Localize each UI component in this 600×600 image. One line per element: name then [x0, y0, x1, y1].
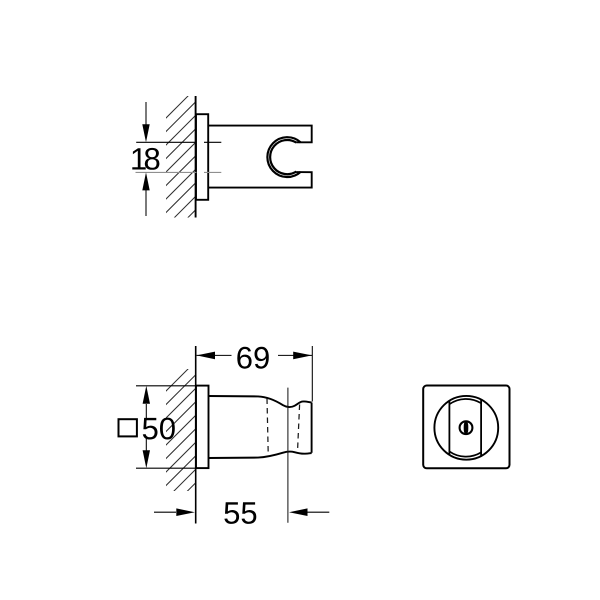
- dimension 50: square-section symbol: [119, 419, 137, 436]
- plate square with rounded corners: [423, 386, 509, 469]
- dimension 50: lower arrowhead (down): [143, 450, 150, 468]
- dimension 50: top extension line: [136, 385, 196, 387]
- dimension 18: upper arrowhead (down): [142, 124, 149, 142]
- dashed tangent edge (left): [267, 399, 268, 454]
- dimension 69: right extension line: [311, 346, 313, 402]
- dimension 50: value label: [143, 418, 175, 440]
- holder rim inner arc (bottom): [449, 451, 481, 456]
- dimension 50: bottom extension line: [136, 467, 196, 469]
- dimension 50: lower dimension line: [145, 438, 147, 451]
- screw slot: [464, 421, 469, 434]
- dimension 18: top extension line: [136, 141, 196, 143]
- wall hatching (side view): [160, 361, 196, 532]
- holder outer circle: [434, 396, 498, 460]
- wall hatching (top view): [160, 88, 196, 273]
- holder left flat chord: [448, 401, 450, 455]
- dimension 18: lower arrowhead (up): [142, 172, 149, 190]
- dimension 18: lower leader line: [145, 189, 147, 216]
- dimension 69: value label: [237, 347, 268, 369]
- C-clip inner arc: [270, 140, 296, 174]
- dashed tangent edge (right): [298, 405, 300, 450]
- dimension 50: upper arrowhead (up): [143, 386, 150, 404]
- wall line (top view): [195, 96, 197, 218]
- dimension 18: value label: [132, 148, 159, 170]
- wall plate (top section): [196, 114, 208, 200]
- holder right flat chord: [480, 400, 482, 456]
- dimension 55: left tail line: [154, 511, 176, 513]
- wall plate (side view): [196, 386, 209, 469]
- dimension 55: value label: [224, 502, 256, 524]
- dimension 69: dimension line left segment: [197, 354, 232, 356]
- dimension 18: upper leader line: [145, 102, 147, 126]
- dimension 69: dimension line right segment: [278, 354, 312, 356]
- screw head circle: [460, 421, 473, 434]
- dimension 69: left arrowhead: [197, 352, 215, 360]
- dimension 18: bottom extension line (gray): [136, 171, 197, 173]
- holder body outline (top section with C-notch): [208, 126, 312, 143]
- dimension 55: right arrowhead (points left): [289, 508, 308, 516]
- wall line + extension line (side view, also 69/55 left extension): [195, 346, 197, 524]
- dimension 69: right arrowhead: [293, 352, 312, 360]
- dimension 55: right tail line: [308, 511, 330, 513]
- dimension 50: upper dimension line: [145, 404, 147, 418]
- holder body profile (side view): [209, 396, 312, 407]
- holder body right end face: [311, 403, 313, 453]
- dimension 55: left arrowhead (points right): [176, 508, 195, 516]
- centerline of knob groove / 55 right extension: [287, 388, 289, 523]
- holder rim inner arc (top): [449, 399, 481, 404]
- C-clip outer arc: [267, 137, 300, 177]
